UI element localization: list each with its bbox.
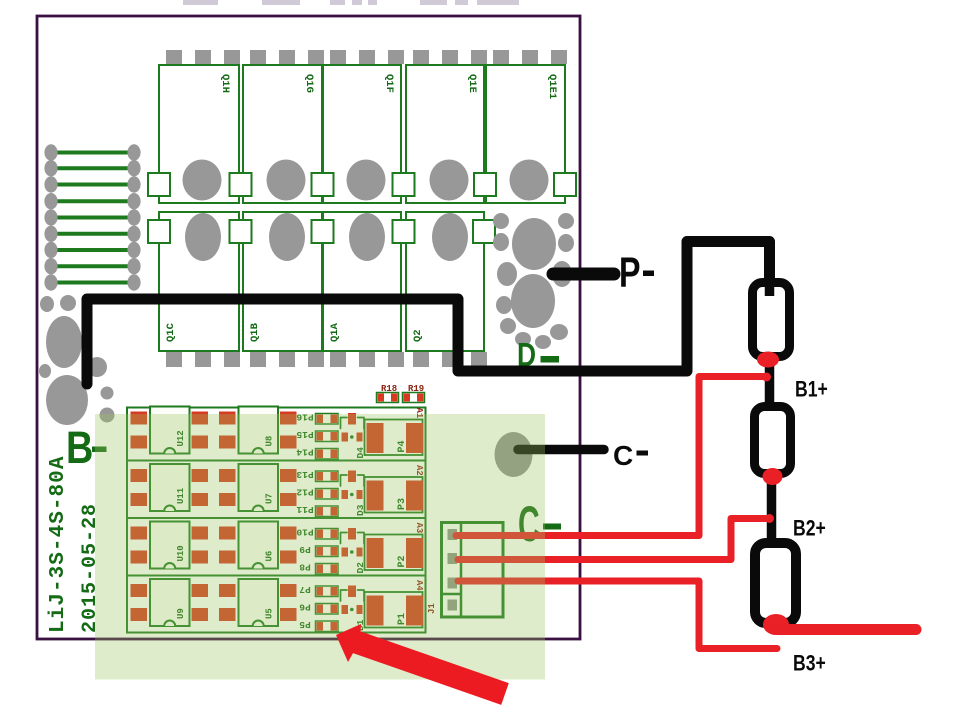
resistor P6 (316, 604, 339, 615)
battery cell 3 (755, 543, 796, 623)
resistor P10 (316, 529, 339, 540)
thick black wire: B- pad to battery B1 negative (87, 242, 770, 385)
MOSFET Q1A footprint (second row) (323, 212, 401, 351)
transistor D4 (SOT-23) (348, 413, 356, 425)
MOSFET Q1E footprint (top row) (413, 50, 429, 64)
transistor D2 (SOT-23) (348, 528, 356, 540)
MOSFET Q1C footprint (second row) (159, 212, 239, 351)
solder tabs between top-row footprints (148, 173, 170, 196)
battery cell 2 (755, 407, 791, 474)
svg-text:Q1G: Q1G (303, 74, 315, 93)
transistor D1 (SOT-23) (348, 586, 356, 598)
resistor P7 (316, 586, 339, 597)
red junction dot B2+ (765, 514, 774, 523)
PCB board outline (37, 16, 580, 639)
IC U9 footprint (131, 584, 148, 597)
red solder dot battery2 bottom (763, 468, 783, 485)
pad pair P1 (365, 592, 423, 628)
resistor P16 (316, 414, 339, 425)
red solder dot battery1 bottom (757, 352, 779, 368)
black link battery2-battery3 (767, 472, 777, 545)
MOSFET Q1G footprint (top row) (250, 50, 266, 64)
MOSFET Q1H footprint (top row) (166, 50, 182, 64)
svg-text:Q1C: Q1C (165, 322, 177, 342)
pad pair P2 (365, 535, 423, 571)
svg-text:Q1B: Q1B (249, 322, 261, 342)
IC U8 footprint (219, 412, 236, 425)
resistor P5 (316, 621, 339, 632)
connector J1 pads (448, 529, 458, 540)
red solder dot battery3 bottom (763, 614, 789, 635)
svg-text:Q1H: Q1H (219, 74, 231, 93)
lower section outline box (127, 408, 426, 633)
resistor P15 (316, 431, 339, 442)
svg-text:Q1A: Q1A (329, 322, 341, 342)
svg-text:B: B (66, 422, 93, 473)
gray pad cluster for P- / B- high-current pads (493, 213, 509, 229)
IC U10 footprint (131, 527, 148, 540)
svg-text:B2+: B2+ (793, 517, 826, 541)
MOSFET Q1B footprint (second row) (243, 212, 322, 351)
svg-text:Q1E1: Q1E1 (546, 74, 558, 99)
row divider lines (127, 460, 426, 462)
IC U12 footprint (131, 412, 148, 425)
solder tabs between second-row footprints (148, 220, 170, 243)
red wire B1+ from connector pin1 (456, 377, 766, 536)
transistor D3 (SOT-23) (348, 471, 356, 483)
IC U6 footprint (219, 527, 236, 540)
connector J1 outline (442, 523, 504, 618)
green highlight overlay (95, 414, 545, 680)
resistor P9 (316, 546, 339, 557)
red wire B3+ from connector pin3 (458, 581, 777, 649)
svg-text:B1+: B1+ (795, 378, 828, 402)
svg-text:B3+: B3+ (793, 652, 826, 676)
red wire B2+ from connector pin2 (458, 519, 769, 560)
IC U5 footprint (219, 584, 236, 597)
IC U7 footprint (219, 469, 236, 482)
IC U11 footprint (131, 469, 148, 482)
red arrow annotation (336, 624, 509, 705)
svg-text:P: P (619, 250, 641, 298)
black link battery1-battery2 (765, 354, 775, 408)
black link battery1 top stub (765, 278, 775, 296)
resistor P12 (316, 489, 339, 500)
pad pair P3 (365, 477, 423, 513)
resistor P14 (316, 449, 339, 460)
thick red wire from B3+ node to right edge (776, 624, 916, 635)
svg-text:C: C (613, 440, 633, 471)
cropped title text fragments at top (183, 0, 218, 5)
svg-text:Q2: Q2 (412, 329, 424, 342)
resistor P13 (316, 471, 339, 482)
battery cell 1 (753, 283, 790, 357)
gray via cluster below ladder (40, 296, 54, 312)
svg-text:Q1E: Q1E (466, 74, 478, 93)
C- sense pad (gray circle) (495, 432, 533, 477)
MOSFET Q1F footprint (top row) (330, 50, 346, 64)
resistor P11 (316, 506, 339, 517)
black P- lead line (553, 268, 614, 281)
MOSFET Q2 footprint (second row) (406, 212, 484, 351)
red junction dot B1+ (762, 373, 771, 382)
MOSFET Q1E1 footprint (top row) (493, 50, 509, 64)
resistor P8 (316, 564, 339, 575)
svg-text:LiJ-3S-4S-80A: LiJ-3S-4S-80A (47, 456, 70, 633)
pad pair P4 (365, 420, 423, 456)
left pad ladder (balance pads) (51, 151, 134, 155)
black C- lead line (518, 445, 604, 455)
svg-text:Q1F: Q1F (383, 74, 395, 93)
